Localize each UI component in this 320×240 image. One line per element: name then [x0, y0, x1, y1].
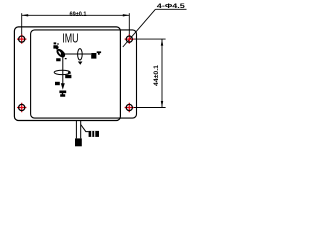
arrowhead bottom of 44 dim	[161, 101, 163, 108]
axis X label	[53, 42, 58, 48]
extension line left (69 dim)	[21, 13, 23, 36]
extension line bottom (44 dim)	[134, 107, 166, 109]
connector plug body	[89, 131, 99, 137]
mounting hole bottom-left ring	[19, 104, 25, 110]
extension line top (44 dim)	[134, 38, 166, 40]
axis Y label	[91, 51, 101, 58]
hole leader line	[123, 9, 156, 47]
connector stub outline	[76, 121, 80, 139]
connector plug slit 1	[91, 131, 92, 137]
axis Z rotation ring	[54, 70, 70, 74]
axis Z upper label	[56, 58, 66, 61]
connector cable	[81, 125, 89, 132]
svg-text:69±0.1: 69±0.1	[70, 11, 87, 18]
axis Y rotation ring	[78, 49, 83, 60]
axis X arrowhead	[54, 45, 59, 49]
axis X line (up-left)	[55, 46, 63, 54]
mounting hole top-left cross	[17, 34, 26, 43]
axis Z tip label	[59, 91, 66, 97]
svg-text:IMU: IMU	[62, 32, 78, 46]
enclosure back plate K	[14, 27, 120, 121]
hole label underline	[155, 8, 186, 10]
axis Z line (down)	[62, 54, 64, 87]
axis Z rotation arrowhead	[67, 71, 71, 75]
svg-text:44±0.1: 44±0.1	[153, 64, 160, 86]
mounting hole top-left ring	[19, 36, 25, 42]
arrowhead top of 44 dim	[161, 39, 163, 46]
mounting hole bottom-left cross	[17, 103, 26, 112]
connector stub tip block	[75, 138, 82, 146]
axis X rotation ring	[56, 49, 65, 58]
mounting hole top-right cross	[125, 34, 134, 43]
axis origin dot	[61, 52, 65, 56]
enclosure front plate F	[31, 30, 137, 118]
axis Y rotation arrowhead	[78, 62, 83, 65]
dimension line 69	[22, 14, 130, 16]
axis Z arrow-side label	[55, 82, 60, 85]
axis Z arrowhead	[61, 83, 65, 89]
mounting hole bottom-right ring	[126, 104, 132, 110]
mounting hole top-right ring	[126, 36, 132, 42]
mounting hole bottom-right cross	[125, 103, 134, 112]
connector plug slit 2	[94, 131, 95, 137]
arrowhead right of 69 dim	[123, 14, 130, 16]
axis Z lower-right label	[65, 75, 71, 78]
arrowhead left of 69 dim	[22, 14, 29, 16]
extension line right (69 dim)	[128, 13, 130, 36]
axis Y line (right)	[63, 53, 91, 55]
dimension line 44	[161, 39, 163, 107]
